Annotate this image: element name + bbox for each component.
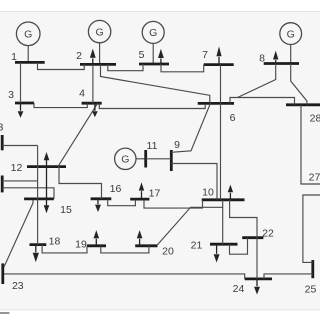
load arrow bus 18 — [33, 245, 39, 263]
load arrow bus 3 — [18, 103, 24, 118]
svg-text:G: G — [24, 29, 32, 41]
svg-text:1: 1 — [11, 51, 17, 63]
svg-text:6: 6 — [230, 112, 236, 124]
wire 2-5 — [108, 64, 143, 71]
wire 13-12 — [2, 145, 37, 147]
wire 17-10 — [144, 200, 203, 208]
bus 19 — [75, 239, 106, 251]
wire 2-6 — [101, 64, 210, 103]
svg-text:12: 12 — [11, 162, 23, 174]
svg-text:16: 16 — [110, 183, 122, 195]
wire 10-20 — [158, 207, 223, 245]
svg-text:18: 18 — [49, 235, 61, 247]
wire 1-2 — [38, 62, 85, 69]
bus 8 — [259, 53, 299, 65]
wire 18-19 — [42, 245, 87, 253]
wire 28-27 — [301, 105, 320, 184]
bus 20 — [135, 245, 174, 257]
generator G8 — [280, 23, 302, 64]
svg-text:23: 23 — [12, 280, 24, 292]
wire 16-17 — [108, 200, 136, 206]
wire 5-7 — [161, 64, 204, 72]
generator G2 — [88, 20, 110, 64]
wire 6-10 — [220, 103, 222, 199]
wire 11-9 — [146, 158, 172, 160]
wire 6-28 — [230, 98, 295, 105]
wire 27-25 — [303, 195, 320, 262]
svg-text:4: 4 — [79, 88, 85, 100]
wire 7-6 — [220, 65, 222, 104]
bus 9 — [171, 139, 180, 171]
load arrow bus 16 — [95, 199, 101, 212]
load arrow bus 5 — [158, 49, 164, 64]
bus 13 — [0, 122, 3, 151]
load arrow bus 4 — [92, 103, 98, 117]
load arrow bus 7 — [216, 46, 221, 64]
wire 23-24 — [4, 274, 245, 279]
load arrow bus 21 — [214, 244, 220, 262]
svg-text:11: 11 — [147, 140, 158, 152]
wire 6-9 — [171, 103, 210, 152]
load arrow bus 2 — [90, 49, 96, 65]
svg-text:7: 7 — [202, 49, 208, 61]
svg-text:20: 20 — [162, 245, 174, 257]
load arrow bus 8 — [273, 51, 278, 64]
svg-text:9: 9 — [174, 139, 180, 151]
bus 22 — [242, 228, 274, 240]
svg-text:22: 22 — [262, 228, 274, 240]
bus 23 — [3, 263, 24, 291]
svg-text:17: 17 — [149, 188, 161, 200]
wire 8-6 — [238, 64, 276, 98]
wire 24-25 — [264, 274, 313, 279]
svg-text:13: 13 — [0, 122, 3, 134]
wire 12-15-18 — [37, 146, 39, 245]
svg-text:28: 28 — [310, 112, 320, 124]
wire 2-4 — [92, 64, 94, 103]
wire 14-15 — [2, 188, 54, 199]
load arrow bus 24 — [254, 279, 260, 295]
wire 19-20 — [101, 246, 149, 253]
svg-text:3: 3 — [8, 89, 14, 101]
bus 1 — [11, 51, 45, 63]
bus 10 — [202, 186, 245, 199]
svg-text:24: 24 — [233, 283, 245, 295]
load arrow bus 20 — [137, 230, 143, 246]
bus 3 — [8, 89, 34, 103]
svg-text:25: 25 — [305, 284, 317, 296]
wire 10-21 — [222, 200, 224, 244]
wire 15-23 — [3, 200, 33, 266]
bus 6 — [198, 103, 236, 123]
svg-text:5: 5 — [139, 49, 145, 61]
bus 18 — [30, 235, 61, 247]
bus 7 — [202, 49, 234, 64]
bus 2 — [76, 50, 116, 64]
svg-text:21: 21 — [191, 239, 203, 251]
wire 21-22 — [230, 238, 248, 255]
load arrow bus 17 — [139, 182, 144, 199]
load arrow bus 19 — [94, 230, 100, 246]
bus 28 — [286, 105, 320, 125]
svg-text:2: 2 — [76, 50, 82, 62]
load arrow bus 10 — [228, 185, 233, 200]
bus 12 — [11, 162, 66, 174]
svg-text:G: G — [287, 28, 295, 40]
generator G5 — [142, 21, 164, 64]
bus 11 — [146, 140, 158, 168]
svg-text:27: 27 — [309, 172, 320, 184]
caption stub bottom-left — [0, 312, 10, 314]
wire 1-3 — [20, 62, 22, 103]
wire 10-22 — [230, 200, 257, 238]
bus 15 — [24, 199, 72, 216]
wire 4-6 — [99, 103, 205, 108]
node 27 label — [309, 172, 320, 184]
bus 5 — [139, 49, 169, 64]
svg-text:8: 8 — [259, 53, 265, 65]
svg-text:10: 10 — [202, 186, 214, 198]
wire 9-10 — [171, 164, 217, 200]
wire 12-16 — [59, 167, 102, 199]
bus 21 — [191, 239, 238, 251]
bus 14 — [1, 176, 4, 193]
svg-text:19: 19 — [75, 239, 87, 251]
wire 4-12 — [58, 103, 98, 166]
svg-text:G: G — [121, 154, 129, 166]
load arrows bus 12 / bus 15 — [44, 152, 50, 213]
bus 25 — [305, 260, 317, 296]
bus 17 — [130, 188, 160, 200]
wire 8-28 — [291, 64, 307, 105]
generator G1 — [16, 22, 40, 62]
generator G11 — [115, 148, 146, 169]
bus 16 — [91, 183, 122, 199]
wire 12-14 — [2, 180, 37, 182]
bus 24 — [233, 279, 272, 295]
svg-text:15: 15 — [60, 204, 72, 216]
svg-text:G: G — [149, 27, 157, 39]
wire 3-4 — [34, 103, 87, 108]
svg-text:G: G — [96, 26, 104, 38]
bus 4 — [79, 88, 102, 104]
wire 22-24 — [256, 238, 258, 279]
